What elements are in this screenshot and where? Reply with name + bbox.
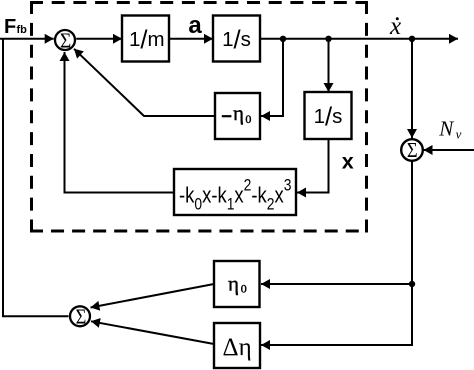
svg-text:F: F — [4, 16, 16, 38]
block -k0x-k1x^2-k2x^3 — [174, 169, 296, 215]
block delta-eta — [214, 323, 260, 368]
dashed system boundary box — [30, 1, 368, 233]
wire node2 down into second 1/s — [328, 39, 330, 92]
wire node4 left into eta0 block — [261, 283, 412, 285]
svg-text:N: N — [438, 116, 454, 140]
node junction dot 2 — [325, 36, 331, 42]
block 1/m — [122, 16, 169, 62]
svg-text:1/m: 1/m — [129, 26, 165, 54]
block -eta0 — [215, 93, 260, 139]
svg-text:η: η — [233, 101, 244, 125]
node junction dot 1 — [280, 36, 286, 42]
svg-text:x: x — [389, 13, 401, 40]
wire node1 down and into -eta0 block — [261, 39, 283, 116]
wire eta0 output diagonal into S3 — [91, 284, 215, 308]
svg-text:Σ: Σ — [60, 30, 71, 53]
svg-text:Δη: Δη — [223, 334, 252, 361]
svg-text:0: 0 — [241, 282, 247, 296]
summing junction S1 (top left) — [55, 30, 75, 50]
wire F_fb into top sum — [0, 38, 54, 40]
node junction dot 4 — [409, 281, 415, 287]
wire S2 output down with corner to delta-eta — [261, 162, 412, 346]
node junction dot 3 — [409, 36, 415, 42]
svg-text:x: x — [342, 149, 354, 173]
summing junction S2 (right) — [401, 139, 423, 161]
wire N_v into S2 from right — [424, 149, 474, 151]
svg-text:0: 0 — [245, 112, 251, 126]
svg-text:1/s: 1/s — [314, 103, 343, 131]
wire delta-eta output diagonal into S3 — [91, 321, 214, 344]
wire main output line to right edge — [260, 38, 458, 40]
wire -k block output left and up into S1 bottom — [65, 52, 175, 193]
svg-text:fb: fb — [17, 24, 28, 36]
summing junction S3 (bottom left) — [70, 306, 90, 326]
wire S1 to 1/m — [76, 38, 122, 40]
svg-text:Σ: Σ — [76, 306, 87, 329]
svg-text:a: a — [188, 12, 202, 39]
svg-text:1/s: 1/s — [222, 26, 251, 54]
wire node3 down into S2 top — [411, 39, 413, 138]
wire feedback loop left: bottom sum output up to top sum input — [3, 39, 69, 317]
svg-text:Σ: Σ — [407, 139, 418, 162]
block 1/s (second integrator) — [305, 92, 352, 139]
block eta0 — [214, 261, 260, 307]
wire -eta0 output to S1 (horizontal then diagonal) — [74, 49, 215, 116]
block 1/s (first integrator) — [213, 16, 260, 62]
svg-text:v: v — [456, 127, 462, 142]
svg-text:η: η — [228, 272, 239, 296]
wire second 1/s down and left into -k block — [297, 139, 329, 193]
wire 1/m to 1/s — [169, 38, 213, 40]
